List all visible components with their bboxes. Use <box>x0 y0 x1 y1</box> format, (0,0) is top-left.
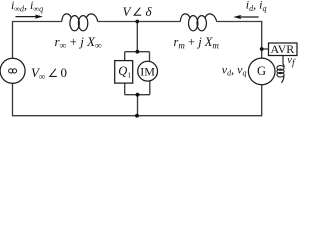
infinite bus source <box>0 58 25 83</box>
svg-text:r∞ + j X∞: r∞ + j X∞ <box>55 34 103 52</box>
wire bottom with both corners <box>13 83 262 115</box>
junction node AVR tap <box>260 47 264 51</box>
AVR box <box>269 43 298 56</box>
generator G <box>248 58 275 85</box>
infinity symbol of infinite bus <box>9 69 17 73</box>
inductor r_m + jX_m <box>180 14 216 31</box>
svg-text:vd, vq: vd, vq <box>222 62 247 77</box>
wire top middle segment <box>98 21 181 23</box>
svg-text:IM: IM <box>140 65 155 79</box>
wire stub from Q1 bottom <box>124 83 126 95</box>
svg-text:rm + j Xm: rm + j Xm <box>174 35 220 51</box>
svg-text:vf: vf <box>287 55 296 69</box>
current arrow i_inf <box>16 15 43 19</box>
svg-text:V: V <box>123 4 133 19</box>
induction motor IM <box>138 61 158 81</box>
wire top left segment with corner <box>13 22 62 59</box>
wire stub to IM top <box>149 52 151 62</box>
svg-text:G: G <box>257 64 266 78</box>
svg-text:V∞: V∞ <box>31 65 45 82</box>
inductor r_inf + jX_inf <box>62 14 98 31</box>
svg-text:id, iq: id, iq <box>246 0 267 13</box>
junction node bus bottom <box>136 93 140 97</box>
wire top right segment with corner <box>217 22 262 59</box>
current arrow i_d i_q <box>233 15 258 19</box>
svg-text:δ: δ <box>146 4 153 19</box>
wire AVR input <box>262 48 269 50</box>
svg-text:i∞d, i∞q: i∞d, i∞q <box>11 0 43 13</box>
wire AVR to field <box>282 56 284 65</box>
load Q1 box <box>115 61 133 84</box>
junction node top middle <box>135 20 139 24</box>
wire stub to Q1 top <box>124 52 126 61</box>
angle symbol of V_inf label <box>50 69 57 77</box>
junction node bottom wire <box>135 114 139 118</box>
svg-text:0: 0 <box>61 65 68 80</box>
wire middle top bus <box>125 51 150 53</box>
wire middle branch drop <box>136 22 138 52</box>
junction node bus top <box>136 50 140 54</box>
field winding coil <box>277 64 284 83</box>
angle symbol of V label <box>134 8 141 16</box>
wire middle bottom bus <box>125 94 150 96</box>
wire middle branch to bottom <box>137 95 139 116</box>
wire stub from IM bottom <box>149 81 151 95</box>
